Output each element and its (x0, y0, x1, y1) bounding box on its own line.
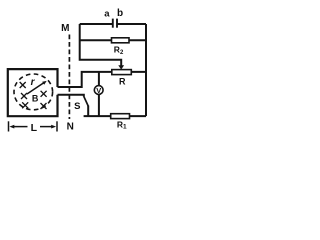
voltmeter branch wire (98, 72, 100, 116)
R2 resistor box (112, 38, 130, 43)
svg-text:B: B (32, 94, 39, 104)
svg-text:N: N (67, 122, 74, 133)
flux cross x5 (41, 103, 47, 109)
flux cross x4 (22, 102, 28, 108)
switch S blade (84, 96, 89, 106)
right rail (145, 24, 147, 116)
radius arrow head (42, 81, 47, 85)
generator box (8, 69, 58, 116)
L dimension left arrow (13, 126, 28, 128)
switch to bottom wire and bottom branch wire (84, 106, 146, 117)
capacitor branch wire left (80, 23, 113, 25)
svg-text:b: b (117, 8, 123, 19)
svg-text:a: a (104, 8, 110, 19)
svg-text:R: R (119, 77, 126, 87)
dashed boundary line MN (68, 35, 70, 120)
L dimension right tick (56, 121, 58, 131)
field region dashed circle (14, 74, 53, 110)
capacitor branch wire right (117, 23, 146, 25)
rheostat arrow head (118, 65, 124, 69)
radius arrow (27, 83, 44, 94)
left rail and wiper wire with drop (80, 24, 122, 66)
R2 branch wire (80, 39, 146, 41)
flux cross x1 (20, 82, 26, 88)
bottom lead wire from box (58, 95, 84, 97)
capacitor plate a (112, 19, 114, 28)
L dimension left tick (8, 121, 10, 131)
svg-text:S: S (74, 101, 80, 112)
R rheostat box (112, 70, 132, 75)
voltmeter circle (94, 86, 103, 95)
L dimension right arrow (40, 126, 53, 128)
top lead wire from box and R branch wire (58, 72, 147, 87)
svg-text:L: L (31, 122, 38, 134)
flux cross x2 (21, 93, 27, 99)
flux cross x3 (41, 91, 47, 97)
svg-text:M: M (61, 23, 69, 34)
svg-text:V: V (96, 86, 101, 95)
capacitor plate b (116, 19, 118, 28)
R1 resistor box (111, 114, 130, 119)
